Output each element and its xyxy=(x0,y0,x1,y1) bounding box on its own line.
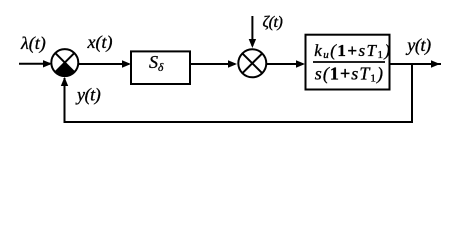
wire: S2 to transfer-function block xyxy=(266,60,305,67)
wire: S1 to block Sδ xyxy=(79,60,132,67)
summing junction S1 (comparator, bottom quadrant filled) xyxy=(51,49,78,76)
label y(t) output xyxy=(405,35,431,56)
wire: Sδ to summer S2 xyxy=(191,60,237,67)
svg-text:y(t): y(t) xyxy=(405,35,431,56)
svg-text:ζ(t): ζ(t) xyxy=(263,14,283,31)
transfer function value label: denominator s(1+sT1) xyxy=(315,63,384,84)
block Sδ (steering gear) xyxy=(131,51,190,84)
label λ(t) input signal xyxy=(20,33,46,54)
label ζ(t) disturbance xyxy=(263,14,283,31)
svg-text:y(t): y(t) xyxy=(75,84,101,105)
svg-text:λ(t): λ(t) xyxy=(20,33,46,54)
wire: disturbance ζ(t) into summer S2 xyxy=(249,16,256,48)
wire: feedback path (tap to bottom rail) xyxy=(61,64,413,123)
transfer function fraction bar xyxy=(313,61,385,63)
svg-text:x(t): x(t) xyxy=(87,32,113,53)
summing junction S2 xyxy=(238,49,266,77)
block: transfer function ku(1+sT1)/s(1+sT1) xyxy=(306,35,390,90)
block Sδ value label xyxy=(149,52,164,74)
label y(t) feedback xyxy=(75,84,101,105)
label x(t) xyxy=(87,32,113,53)
transfer function value label: numerator ku(1+sT1) xyxy=(314,41,391,61)
wire: input into summer S1 xyxy=(19,60,52,67)
wire: output y(t) xyxy=(390,60,441,67)
